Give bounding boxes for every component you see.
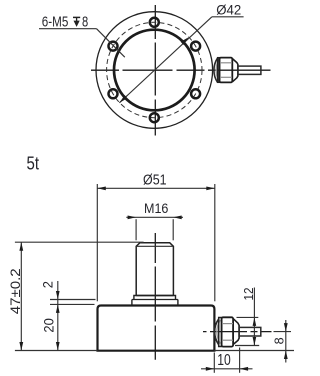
dimension 10: dimension line with outside arrows bbox=[201, 368, 253, 370]
dimension 2: dimension line with outside arrows bbox=[57, 281, 59, 304]
top connector: bevel bbox=[232, 59, 238, 82]
front connector: bevel bbox=[233, 319, 239, 345]
bolt hole bottom (M5) bbox=[150, 113, 159, 122]
dimension 12: extension lines bbox=[237, 316, 259, 318]
dimension 2: extension lines bbox=[50, 299, 96, 301]
top connector: hex nut block bbox=[220, 58, 233, 83]
svg-text:Ø51: Ø51 bbox=[143, 172, 167, 189]
dimension Ø42: arrowheads bbox=[181, 37, 189, 45]
dimension 8: extension line at body bottom bbox=[214, 350, 294, 352]
svg-text:47±0.2: 47±0.2 bbox=[8, 268, 23, 314]
body inner circle (thick) bbox=[114, 30, 195, 111]
dimension Ø42: label underline bbox=[212, 16, 244, 18]
flange step 1 bbox=[134, 296, 176, 300]
dimension 20: dimension line bbox=[57, 304, 59, 350]
front connector: hex nut block bbox=[222, 317, 234, 346]
dimension 8: dimension line with outside arrows bbox=[285, 320, 287, 363]
front connector: washer bbox=[219, 318, 222, 347]
bolt hole top (M5) bbox=[150, 18, 159, 27]
svg-text:8: 8 bbox=[272, 337, 286, 344]
callout 6-M5 depth 8: underline bbox=[39, 28, 97, 30]
body (cylinder) outline bbox=[98, 306, 215, 351]
flange step 2 bbox=[132, 300, 178, 306]
svg-text:8: 8 bbox=[82, 14, 88, 31]
top view: vertical centerline bbox=[154, 5, 156, 136]
callout 6-M5 depth 8: leader line bbox=[97, 29, 125, 58]
front connector: boss shading arc (gray) bbox=[217, 320, 220, 344]
bolt hole lower-right (M5) bbox=[191, 89, 200, 98]
dimension 47±0.2: extension line top bbox=[15, 241, 144, 243]
stud bottom line bbox=[136, 295, 173, 297]
front connector: stem bbox=[239, 327, 261, 336]
svg-text:M16: M16 bbox=[144, 201, 168, 216]
dimension Ø42: diagonal diameter line bbox=[119, 17, 211, 103]
top connector: round boss arc (dark) bbox=[214, 58, 218, 82]
stud chamfer line bbox=[136, 245, 173, 247]
dimension 10: extension lines bbox=[213, 353, 215, 373]
dimension O51: dimension line bbox=[97, 187, 215, 189]
top connector: hex facet lines bbox=[220, 62, 232, 64]
svg-text:2: 2 bbox=[41, 281, 56, 288]
bolt hole upper-left (M5) bbox=[109, 42, 118, 51]
bolt hole lower-left (M5) bbox=[109, 89, 118, 98]
top connector: washer bbox=[218, 58, 220, 83]
stud top edge bbox=[140, 242, 170, 244]
svg-text:20: 20 bbox=[42, 318, 57, 332]
stud (M16) outline bbox=[136, 243, 173, 296]
dimension M16: dimension line with outside arrows bbox=[126, 216, 183, 218]
front view: vertical centerline bbox=[154, 233, 156, 360]
flange outer circle bbox=[96, 12, 213, 129]
dimension 47±0.2: extension line bottom bbox=[15, 350, 98, 352]
front view: connector centerline bbox=[203, 331, 272, 333]
svg-text:12: 12 bbox=[242, 287, 256, 300]
bolt hole upper-right (M5) bbox=[191, 42, 200, 51]
front connector: round boss arc (dark) bbox=[215, 319, 219, 345]
top view: horizontal centerline bbox=[91, 69, 271, 71]
dimension 8: extension line at connector centerline bbox=[274, 331, 292, 333]
dimension 12: dimension line bbox=[253, 288, 255, 346]
svg-text:10: 10 bbox=[217, 352, 231, 369]
top connector: stem bbox=[238, 66, 261, 74]
dimension 47±0.2: dimension line bbox=[20, 242, 22, 350]
callout: depth symbol bbox=[73, 16, 80, 18]
bolt circle (dashed) bbox=[107, 22, 202, 117]
svg-text:5t: 5t bbox=[27, 152, 40, 173]
svg-text:6-M5: 6-M5 bbox=[42, 14, 69, 31]
svg-text:Ø42: Ø42 bbox=[216, 1, 241, 17]
dimension M16: extension lines bbox=[135, 219, 137, 240]
top connector: boss shading arcs (gray) bbox=[216, 59, 219, 81]
front connector: hex facet lines bbox=[222, 323, 233, 325]
dimension O51: extension lines bbox=[96, 184, 98, 301]
